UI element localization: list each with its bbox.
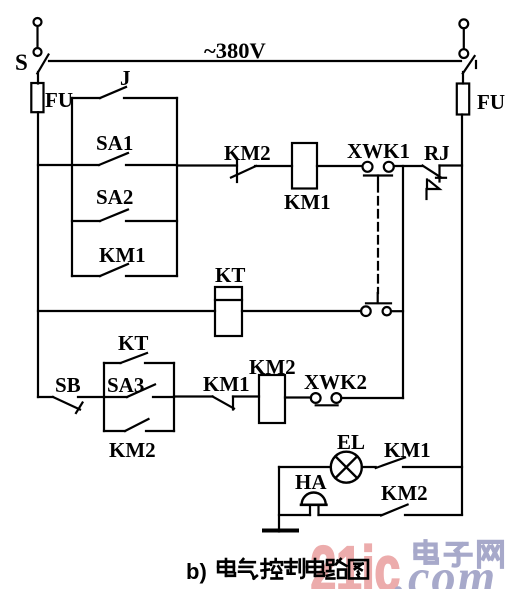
svg-text:KM2: KM2 <box>381 481 428 505</box>
svg-text:~380V: ~380V <box>204 38 266 63</box>
svg-text:EL: EL <box>337 430 365 454</box>
svg-text:KM2: KM2 <box>224 141 271 165</box>
svg-text:XWK1: XWK1 <box>347 139 410 163</box>
svg-text:SB: SB <box>55 373 81 397</box>
svg-text:.com: .com <box>394 549 497 589</box>
svg-text:KM2: KM2 <box>109 438 156 462</box>
svg-text:KT: KT <box>215 263 245 287</box>
svg-text:KT: KT <box>118 331 148 355</box>
svg-text:J: J <box>120 66 131 90</box>
svg-text:XWK2: XWK2 <box>304 370 367 394</box>
svg-text:b): b) <box>186 559 207 584</box>
svg-text:KM2: KM2 <box>249 355 296 379</box>
svg-text:FU: FU <box>45 88 73 112</box>
svg-text:KM1: KM1 <box>284 190 331 214</box>
svg-text:KM1: KM1 <box>384 438 431 462</box>
svg-text:SA3: SA3 <box>107 373 144 397</box>
svg-text:S: S <box>15 50 28 75</box>
svg-text:KM1: KM1 <box>203 372 250 396</box>
svg-text:SA2: SA2 <box>96 185 133 209</box>
svg-text:KM1: KM1 <box>99 243 146 267</box>
svg-text:SA1: SA1 <box>96 131 133 155</box>
svg-text:FU: FU <box>477 90 505 114</box>
svg-text:HA: HA <box>295 470 327 494</box>
svg-text:RJ: RJ <box>424 141 450 165</box>
